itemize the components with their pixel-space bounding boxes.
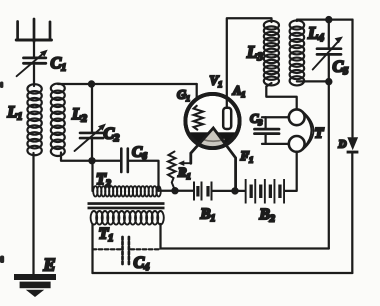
label R1: [177, 165, 191, 182]
label T2: [96, 171, 111, 190]
transformer winding T1: [91, 211, 164, 225]
wire antenna to C1: [33, 41, 35, 58]
wire L4 top to diode line: [297, 20, 353, 21]
capacitor C3: [255, 129, 280, 134]
label T: [315, 126, 325, 142]
wire L4 bottom: [297, 80, 329, 82]
label V1: [210, 73, 223, 90]
wire right rail with diode: [351, 20, 353, 273]
rheostat arrow R1: [178, 160, 191, 166]
wire T1 right lead down: [159, 224, 161, 249]
label L4: [307, 24, 324, 45]
label C4: [134, 255, 150, 274]
label C3: [250, 112, 262, 128]
label B1: [200, 207, 216, 225]
transformer core T1 T2: [88, 202, 165, 209]
wire plate return y246: [161, 247, 329, 249]
capacitor C6: [121, 149, 128, 173]
label C6: [132, 145, 147, 163]
tube anode A1: [223, 108, 231, 129]
wire C5 junction down to return: [328, 82, 330, 249]
node L2 bottom junction: [88, 157, 95, 164]
wire T1 left lead down: [91, 224, 93, 273]
wire bottom return: [93, 272, 353, 274]
svg-text:T: T: [315, 126, 325, 142]
svg-text:D: D: [338, 139, 347, 151]
tube grid G1: [194, 106, 203, 130]
wire C6 to T2 right: [129, 161, 159, 191]
label F1: [240, 148, 254, 165]
diode D: [347, 137, 359, 153]
label T1: [99, 226, 114, 245]
headphone band: [303, 112, 314, 150]
wire anode to L3: [227, 18, 272, 108]
wire C5 lower: [328, 56, 330, 82]
capacitor C5: [313, 37, 343, 70]
wire C1 to L1: [33, 66, 35, 87]
inductor L3: [264, 21, 279, 86]
wire L2 top to grid: [58, 83, 197, 85]
scan mark left edge upper: [0, 82, 3, 89]
node filament B junction: [231, 187, 238, 194]
node R1 B1 junction: [171, 187, 178, 194]
node C5 bottom: [325, 78, 332, 85]
wire L2 bottom lead: [61, 153, 121, 161]
wire C5 upper: [328, 20, 330, 49]
wire dashed C4 link: [93, 248, 161, 250]
ground E: [14, 274, 56, 297]
tube filament and leg wires: [191, 128, 236, 190]
svg-text:E: E: [43, 255, 56, 275]
capacitor C2: [75, 124, 107, 152]
wire L3 bottom to phones: [266, 83, 296, 110]
tube V1 envelope: [185, 94, 239, 148]
tube shading: [184, 129, 242, 150]
scan mark left edge lower: [0, 256, 4, 264]
wire phones to C3: [262, 117, 289, 144]
node C5 top: [325, 16, 332, 23]
inductor L4: [290, 20, 305, 85]
label C2: [104, 126, 120, 145]
label L3: [246, 43, 263, 64]
wire T2 right to B1: [159, 190, 194, 192]
wire grid lead into tube: [196, 84, 198, 106]
tube envelope stroke again: [185, 94, 239, 148]
label G1: [177, 88, 190, 104]
wire B1 to B2: [213, 190, 246, 192]
label L2: [71, 106, 87, 125]
wire C2 branch lower: [91, 140, 93, 161]
inductor L2: [51, 84, 65, 156]
battery B1: [193, 182, 213, 201]
antenna: [16, 19, 51, 42]
resistor R1: [168, 152, 176, 191]
label A1: [232, 84, 245, 100]
inductor L1: [27, 84, 41, 155]
wire B2 to phones: [285, 152, 297, 191]
headphone T upper: [289, 109, 305, 125]
transformer winding T2: [93, 186, 161, 196]
headphone T lower: [289, 136, 305, 152]
wire L1 to ground: [32, 153, 34, 275]
label L1: [7, 104, 23, 123]
wire T2 left branch: [91, 162, 93, 191]
capacitor C1: [17, 50, 48, 77]
label D: [338, 139, 347, 151]
battery B2: [245, 179, 285, 204]
capacitor C4 dashed: [123, 237, 129, 264]
label C5: [333, 59, 349, 78]
label E: [43, 255, 56, 275]
node L2 top junction: [88, 80, 95, 87]
wire C2 branch upper: [91, 84, 93, 133]
label C1: [51, 55, 67, 74]
label B2: [259, 206, 275, 225]
